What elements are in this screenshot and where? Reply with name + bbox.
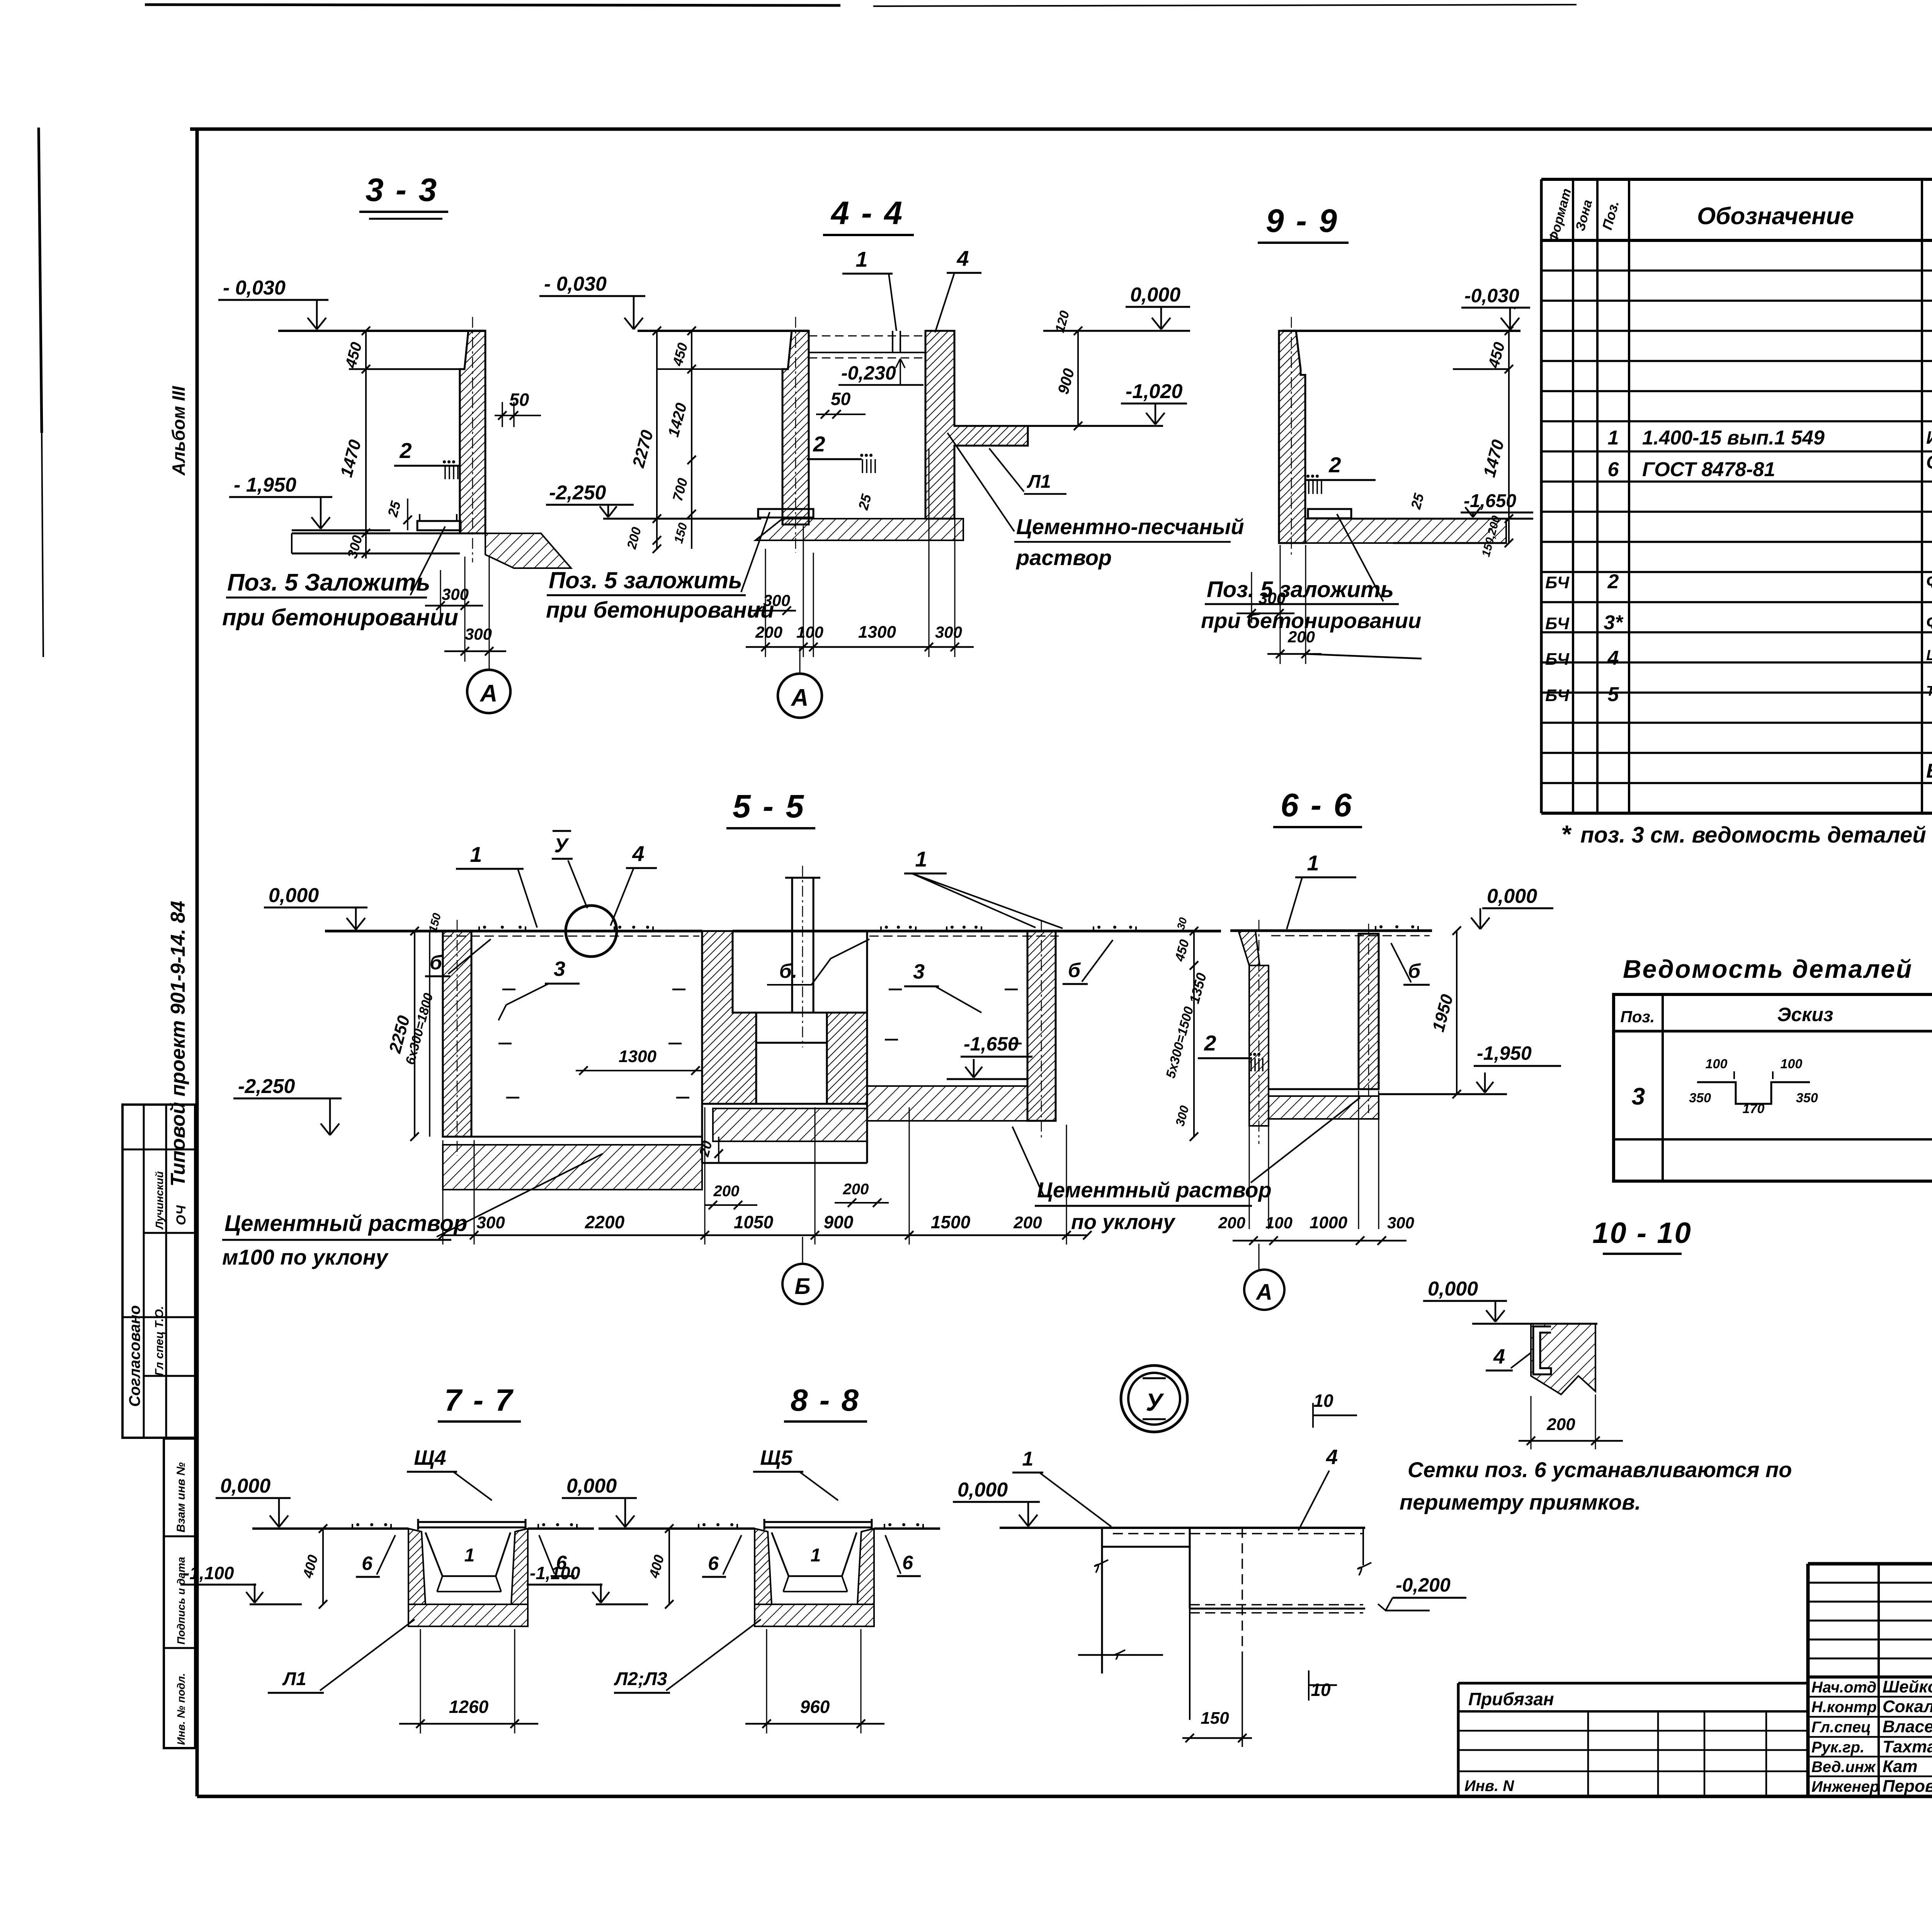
svg-text:0,000: 0,000 — [1428, 1278, 1478, 1300]
svg-text:3*: 3* — [1604, 611, 1624, 634]
8 - 8 mesh marks — [698, 1524, 699, 1528]
5-5 pedestal foundation below — [713, 1108, 867, 1141]
svg-text:1300: 1300 — [858, 623, 896, 642]
svg-text:4: 4 — [1607, 647, 1619, 669]
svg-text:Альбом III: Альбом III — [168, 386, 189, 476]
svg-text:5: 5 — [1608, 683, 1619, 706]
svg-text:Нач.отд: Нач.отд — [1811, 1679, 1876, 1696]
svg-text:2200: 2200 — [585, 1212, 625, 1232]
svg-text:3: 3 — [913, 960, 925, 983]
svg-text:б: б — [1068, 959, 1081, 982]
svg-text:960: 960 — [800, 1697, 830, 1717]
svg-text:Поз. 5 Заложить: Поз. 5 Заложить — [227, 569, 430, 596]
svg-text:Вед.инж: Вед.инж — [1811, 1759, 1876, 1776]
3-3 wall (hatched) — [460, 331, 485, 533]
svg-text:У: У — [554, 834, 569, 857]
5-5 pipe on pedestal — [791, 878, 793, 1013]
svg-text:6: 6 — [708, 1553, 719, 1574]
svg-text:200: 200 — [1546, 1415, 1575, 1434]
6-6 diagonal leader — [1251, 1098, 1360, 1183]
svg-text:300: 300 — [935, 623, 962, 641]
5-5 inner dim chain 6х300=1800 — [429, 931, 430, 1137]
svg-text:Перова: Перова — [1883, 1777, 1932, 1796]
svg-text:6: 6 — [362, 1553, 373, 1574]
5-5 left wall hatched — [443, 931, 471, 1137]
деталь 3 sketch (channel) — [1697, 1082, 1810, 1104]
4-4 opening top dashed cover — [809, 335, 925, 337]
svg-text:Власенко: Власенко — [1883, 1717, 1932, 1736]
svg-text:4 - 4: 4 - 4 — [830, 195, 904, 231]
svg-text:200: 200 — [755, 623, 782, 641]
svg-text:150: 150 — [1201, 1709, 1229, 1728]
8 - 8 400 dim — [668, 1529, 670, 1604]
svg-text:б: б — [430, 952, 443, 974]
8 - 8 ground line — [599, 1527, 755, 1530]
svg-text:периметру приямков.: периметру приямков. — [1400, 1490, 1641, 1514]
svg-text:Ведомость деталей: Ведомость деталей — [1623, 955, 1913, 983]
svg-text:м100 по уклону: м100 по уклону — [222, 1245, 389, 1269]
3-3 rebar dots — [443, 460, 446, 463]
4-4 right wall and step — [925, 331, 1028, 519]
6-6 axis circle А — [1244, 1270, 1284, 1310]
svg-text:0,000: 0,000 — [220, 1475, 270, 1497]
svg-text:1260: 1260 — [449, 1697, 489, 1717]
svg-text:1: 1 — [464, 1545, 475, 1566]
8 - 8 tray cover plate — [764, 1521, 872, 1523]
4-4 ground line left — [638, 330, 809, 332]
4-4 floor slab — [603, 518, 761, 520]
svg-text:Сокальская: Сокальская — [1883, 1697, 1932, 1716]
svg-text:Шейко: Шейко — [1883, 1677, 1932, 1696]
7 - 7 tray cover plate — [418, 1521, 526, 1523]
name rows — [1808, 1696, 1932, 1698]
svg-text:Инженер: Инженер — [1811, 1778, 1879, 1795]
svg-text:0,000: 0,000 — [1487, 885, 1537, 907]
svg-text:А: А — [791, 684, 809, 711]
5-5 left dim chain 2250 — [414, 931, 415, 1137]
10-10 bottom verticals — [1189, 1609, 1190, 1720]
4-4 left dim chain 2270/1420/450/700/150 — [656, 331, 658, 549]
svg-text:б.: б. — [779, 960, 798, 982]
4-4 left wall (hatched) — [782, 331, 809, 524]
svg-text:4: 4 — [1493, 1345, 1505, 1368]
10-10 vertical dashed — [1242, 1528, 1243, 1655]
svg-text:1000: 1000 — [1310, 1213, 1347, 1232]
title block outer — [1808, 1562, 1932, 1566]
svg-text:Щ5: Щ5 — [760, 1446, 793, 1469]
Прибязан table — [1458, 1682, 1808, 1685]
svg-text:1: 1 — [1022, 1448, 1034, 1470]
svg-text:1: 1 — [915, 847, 927, 871]
svg-text:Тахтамышева: Тахтамышева — [1883, 1737, 1932, 1756]
svg-text:50: 50 — [509, 390, 529, 410]
6-6 pit floor and slab — [1269, 1088, 1359, 1090]
7 - 7 inner tray trough — [425, 1532, 510, 1576]
У detail double circle — [1121, 1365, 1187, 1432]
svg-text:А: А — [1255, 1280, 1272, 1305]
svg-text:100: 100 — [1706, 1057, 1728, 1071]
8 - 8 bottom dim — [745, 1723, 884, 1725]
svg-text:Л1: Л1 — [1027, 472, 1051, 492]
svg-text:-1,100: -1,100 — [530, 1563, 580, 1583]
svg-text:поз. 3 см. ведомость деталей: поз. 3 см. ведомость деталей — [1580, 822, 1926, 848]
svg-text:-1,020: -1,020 — [1126, 380, 1183, 403]
svg-text:-1,100: -1,100 — [184, 1563, 234, 1583]
4-4 dim chain right 120/900 — [1077, 331, 1079, 426]
drawing frame border — [190, 128, 1932, 131]
5-5 ground line — [325, 930, 702, 933]
svg-text:200: 200 — [1013, 1213, 1042, 1232]
svg-text:1050: 1050 — [734, 1212, 774, 1232]
svg-text:100: 100 — [1265, 1214, 1293, 1232]
svg-text:Щ4: Щ4 — [414, 1446, 446, 1469]
10-10 bottom break line — [1078, 1654, 1163, 1656]
svg-text:Гл.спец: Гл.спец — [1811, 1719, 1871, 1736]
paper left edge artifact — [39, 128, 42, 433]
svg-text:170: 170 — [1743, 1102, 1765, 1116]
svg-text:БЧ: БЧ — [1545, 614, 1570, 633]
svg-text:4: 4 — [956, 246, 969, 271]
svg-text:300: 300 — [476, 1213, 505, 1232]
svg-text:1500: 1500 — [931, 1212, 971, 1232]
svg-text:Лучинский: Лучинский — [153, 1171, 165, 1230]
svg-text:-1,950: -1,950 — [1477, 1042, 1532, 1064]
svg-text:Обозначение: Обозначение — [1697, 203, 1854, 230]
channel detail floor line — [1472, 1323, 1597, 1325]
svg-text:С: С — [1926, 452, 1932, 473]
svg-text:2: 2 — [1204, 1031, 1216, 1055]
svg-text:2: 2 — [1328, 453, 1341, 477]
svg-text:ГОСТ 8478-81: ГОСТ 8478-81 — [1642, 458, 1775, 481]
svg-text:Поз.: Поз. — [1621, 1008, 1655, 1026]
svg-text:5 - 5: 5 - 5 — [733, 788, 805, 824]
svg-text:200: 200 — [713, 1183, 740, 1200]
margin stamp: Взам инв / Подпись и дата / Инв № подл — [164, 1439, 195, 1748]
specification table grid — [1540, 179, 1543, 813]
svg-text:1300: 1300 — [619, 1047, 656, 1066]
svg-text:Сетки поз. 6 устанавливаются: Сетки поз. 6 устанавливаются по — [1408, 1457, 1792, 1482]
5-5 left pit floor and slab — [471, 1136, 702, 1138]
6-6 bottom dims 200/100/1000/300 — [1233, 1240, 1406, 1242]
svg-text:Взам инв №: Взам инв № — [175, 1462, 187, 1532]
3-3 level line — [292, 529, 390, 531]
svg-text:-0,230: -0,230 — [841, 362, 896, 384]
10-10 step — [1190, 1608, 1365, 1610]
svg-text:2: 2 — [813, 432, 825, 456]
6-6 right wall — [1359, 934, 1379, 1089]
9-9 ground line — [1282, 330, 1520, 332]
4-4 bottom dims 200/100/1300/300 — [746, 646, 974, 648]
title block upper grid rows — [1808, 1582, 1932, 1584]
svg-text:Цементно-песчаный: Цементно-песчаный — [1016, 514, 1244, 539]
3-3 wall centerline — [472, 317, 473, 562]
svg-text:900: 900 — [824, 1212, 854, 1232]
svg-text:БЧ: БЧ — [1545, 650, 1570, 669]
svg-text:0,000: 0,000 — [1130, 284, 1180, 306]
svg-text:1.400-15 вып.1 549: 1.400-15 вып.1 549 — [1642, 427, 1825, 449]
3-3 floor slab — [292, 533, 460, 535]
svg-text:У: У — [1146, 1388, 1164, 1416]
svg-text:200: 200 — [843, 1181, 869, 1198]
svg-text:ОЧ: ОЧ — [174, 1205, 189, 1225]
channel profile С-shape — [1533, 1326, 1551, 1374]
svg-text:Цементный раствор: Цементный раствор — [224, 1211, 467, 1236]
title block columns — [1878, 1564, 1880, 1796]
svg-text:10: 10 — [1313, 1391, 1333, 1411]
6-6 ground line — [1230, 930, 1432, 932]
svg-text:Прибязан: Прибязан — [1468, 1689, 1554, 1709]
5-5 right wall hatched — [1027, 931, 1056, 1121]
5-5 mesh marks — [478, 926, 480, 930]
svg-text:1: 1 — [855, 247, 867, 271]
svg-text:Швемер: Швемер — [1926, 647, 1932, 664]
svg-text:- 0,030: - 0,030 — [223, 277, 286, 299]
svg-text:6: 6 — [902, 1552, 913, 1573]
3-3 ground line — [278, 330, 485, 332]
svg-text:300: 300 — [1259, 589, 1286, 607]
svg-text:4: 4 — [632, 841, 644, 866]
5-5 bottom dim chain — [443, 1234, 1087, 1236]
10-10 top floor line — [1000, 1527, 1365, 1529]
svg-text:10: 10 — [1311, 1680, 1331, 1700]
8 - 8 bottom slab hatched — [755, 1604, 874, 1626]
svg-text:Изделие закладное МН 548: Изделие закладное МН 548 — [1926, 427, 1932, 448]
svg-text:Л1: Л1 — [282, 1669, 306, 1689]
svg-text:-0,200: -0,200 — [1396, 1574, 1451, 1596]
svg-text:100: 100 — [1781, 1057, 1803, 1071]
svg-text:- 1,950: - 1,950 — [234, 474, 296, 496]
svg-text:-2,250: -2,250 — [549, 482, 606, 504]
4-4 embedded part — [758, 509, 813, 518]
svg-text:Цементный раствор: Цементный раствор — [1037, 1178, 1272, 1202]
svg-text:-1,650: -1,650 — [1464, 491, 1516, 511]
9-9 embedded part — [1308, 509, 1351, 518]
svg-text:1: 1 — [470, 842, 482, 867]
svg-text:1: 1 — [811, 1545, 821, 1566]
5-5 middle structure — [702, 931, 756, 1104]
svg-text:при бетонировании: при бетонировании — [546, 598, 774, 623]
4-4 axis circle А — [778, 674, 822, 718]
svg-text:*: * — [1561, 820, 1572, 848]
svg-text:3: 3 — [554, 957, 565, 981]
5-5 detail circle У — [566, 906, 617, 957]
svg-text:300: 300 — [465, 625, 492, 643]
svg-text:А: А — [480, 680, 498, 707]
svg-text:БЧ: БЧ — [1545, 686, 1570, 705]
svg-text:Типовой проект 901-9-14. 8: Типовой проект 901-9-14. 84 — [167, 901, 189, 1187]
svg-text:200: 200 — [1287, 628, 1315, 646]
9-9 wall (hatched) — [1279, 331, 1305, 543]
svg-text:Л2;Л3: Л2;Л3 — [614, 1669, 667, 1689]
8 - 8 inner tray trough — [772, 1532, 857, 1576]
svg-text:Эскиз: Эскиз — [1777, 1004, 1833, 1025]
svg-text:- 0,030: - 0,030 — [544, 273, 607, 295]
svg-text:БЧ: БЧ — [1545, 573, 1570, 592]
7 - 7 400 dim — [322, 1529, 324, 1604]
5-5 axis circle б — [782, 1264, 823, 1304]
svg-text:Согласовано: Согласовано — [126, 1305, 143, 1407]
svg-text:300: 300 — [1387, 1214, 1414, 1232]
svg-text:Ф16АI ГОСТ5781-82 l=1070: Ф16АI ГОСТ5781-82 l=1070 — [1926, 612, 1932, 632]
7 - 7 pit walls hatched — [408, 1529, 425, 1604]
svg-text:Рук.гр.: Рук.гр. — [1811, 1739, 1864, 1756]
svg-text:Б: Б — [794, 1274, 810, 1299]
6-6 left wall — [1238, 931, 1269, 1126]
9-9 level line — [1329, 518, 1533, 520]
3-3 axis circle А — [467, 670, 510, 713]
6-6 1950 dim — [1456, 931, 1458, 1094]
svg-text:350: 350 — [1796, 1091, 1818, 1105]
svg-text:Гл спец Т.О.: Гл спец Т.О. — [153, 1306, 166, 1376]
svg-text:2: 2 — [399, 438, 412, 463]
svg-text:2: 2 — [1607, 570, 1619, 593]
svg-text:по уклону: по уклону — [1071, 1210, 1176, 1234]
svg-text:Н.контр: Н.контр — [1811, 1699, 1877, 1716]
paper top edge artifact — [145, 5, 840, 5]
svg-text:200: 200 — [1218, 1214, 1245, 1232]
9-9 right dim chain 450/1470 — [1508, 331, 1510, 543]
svg-text:3 - 3: 3 - 3 — [366, 172, 438, 208]
svg-text:9 - 9: 9 - 9 — [1266, 203, 1338, 239]
svg-text:3: 3 — [1632, 1083, 1645, 1110]
svg-text:при бетонировании: при бетонировании — [222, 604, 458, 630]
svg-text:Инв. № подл.: Инв. № подл. — [175, 1673, 187, 1745]
svg-text:Бетон марки М100: Бетон марки М100 — [1926, 760, 1932, 782]
svg-text:Поз. 5 заложить: Поз. 5 заложить — [549, 567, 742, 593]
svg-text:300: 300 — [763, 591, 790, 609]
margin stamp: Согласовано box — [122, 1105, 195, 1438]
svg-text:-2,250: -2,250 — [238, 1075, 295, 1098]
svg-text:10 - 10: 10 - 10 — [1592, 1217, 1692, 1250]
svg-text:6 - 6: 6 - 6 — [1281, 787, 1353, 823]
8 - 8 pit walls hatched — [755, 1529, 772, 1604]
svg-text:-0,030: -0,030 — [1464, 285, 1519, 306]
7 - 7 bottom dim — [399, 1723, 538, 1725]
3-3 left dim chain 450/1470 — [365, 331, 367, 537]
svg-text:100: 100 — [796, 623, 823, 641]
9-9 floor slab — [1305, 519, 1506, 543]
svg-text:Ф16АI ГОСТ5781-82 l=1000: Ф16АI ГОСТ5781-82 l=1000 — [1926, 571, 1932, 591]
svg-text:Труба: Труба — [1926, 683, 1932, 699]
Ведомость деталей table — [1614, 994, 1932, 1181]
svg-text:1: 1 — [1307, 851, 1319, 875]
5-5 right dim chain — [1193, 931, 1195, 1137]
svg-text:0,000: 0,000 — [957, 1479, 1008, 1501]
channel detail hatched block — [1531, 1324, 1595, 1394]
4-4 inner floor Л1 dashed — [809, 352, 925, 353]
7 - 7 mesh marks — [352, 1524, 353, 1528]
svg-text:7 - 7: 7 - 7 — [444, 1383, 514, 1417]
7 - 7 ground line — [252, 1527, 408, 1530]
3-3 embedded part поз 5 — [417, 521, 461, 530]
svg-text:0,000: 0,000 — [566, 1475, 617, 1497]
svg-text:1: 1 — [1608, 427, 1619, 449]
svg-text:50: 50 — [831, 389, 851, 409]
svg-text:раствор: раствор — [1015, 545, 1112, 570]
10-10 left wall — [1101, 1528, 1103, 1674]
svg-text:4: 4 — [1326, 1445, 1338, 1469]
svg-text:Инв. N: Инв. N — [1464, 1777, 1514, 1794]
svg-text:6: 6 — [1608, 458, 1619, 481]
svg-text:0,000: 0,000 — [269, 884, 319, 907]
7 - 7 bottom slab hatched — [408, 1604, 528, 1626]
svg-text:350: 350 — [1689, 1091, 1711, 1105]
svg-text:8 - 8: 8 - 8 — [791, 1383, 860, 1417]
svg-text:Кат: Кат — [1883, 1757, 1918, 1776]
svg-text:Поз. 5 заложить: Поз. 5 заложить — [1207, 577, 1394, 602]
